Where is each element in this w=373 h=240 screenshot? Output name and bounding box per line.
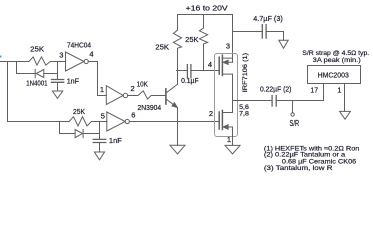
svg-text:17: 17 [310, 85, 318, 94]
svg-text:4.7µF (3): 4.7µF (3) [253, 14, 283, 23]
svg-text:1: 1 [100, 85, 104, 94]
svg-text:HMC2003: HMC2003 [318, 71, 349, 80]
svg-text:1: 1 [227, 135, 231, 144]
svg-text:0.22µF (2): 0.22µF (2) [260, 84, 291, 93]
svg-text:25K: 25K [30, 44, 44, 53]
svg-text:3A peak (min.): 3A peak (min.) [313, 57, 361, 64]
svg-text:4: 4 [89, 50, 93, 59]
svg-text:1: 1 [337, 85, 341, 94]
svg-text:4: 4 [208, 60, 212, 69]
svg-text:3: 3 [226, 42, 230, 51]
svg-text:+16 to 20V: +16 to 20V [186, 4, 228, 13]
svg-text:7,8: 7,8 [239, 110, 249, 117]
svg-text:2: 2 [209, 109, 213, 118]
svg-text:5: 5 [101, 111, 105, 120]
svg-text:10K: 10K [137, 80, 148, 89]
svg-text:6: 6 [131, 111, 135, 120]
svg-text:0.1µF: 0.1µF [181, 76, 199, 85]
svg-text:25K: 25K [155, 42, 169, 51]
svg-text:1nF: 1nF [109, 136, 122, 145]
svg-text:1N4001: 1N4001 [26, 78, 47, 87]
svg-text:2N3904: 2N3904 [138, 103, 162, 112]
svg-text:IRF7106 (1): IRF7106 (1) [242, 53, 249, 92]
svg-text:2: 2 [131, 84, 135, 93]
svg-text:74HC04: 74HC04 [67, 41, 91, 50]
svg-text:25K: 25K [185, 35, 198, 44]
svg-text:S/R: S/R [290, 119, 300, 128]
svg-text:3: 3 [59, 50, 63, 59]
svg-text:25K: 25K [73, 107, 85, 116]
svg-text:1nF: 1nF [67, 77, 80, 86]
svg-text:(3) Tantalum, low R: (3) Tantalum, low R [264, 165, 333, 172]
